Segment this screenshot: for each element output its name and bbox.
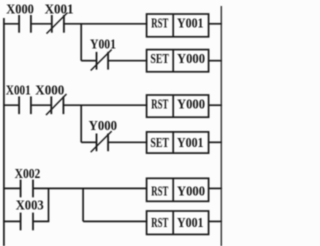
- svg-text:RST: RST: [151, 216, 168, 231]
- contact X002 NO: [21, 180, 33, 198]
- contact X001 NC: [47, 13, 68, 34]
- svg-text:RST: RST: [151, 97, 168, 112]
- wire RST box to right rail rung3: [209, 187, 222, 189]
- svg-text:Y001: Y001: [177, 136, 204, 151]
- svg-text:Y000: Y000: [177, 184, 205, 199]
- wire Y001 to SET box: [108, 60, 147, 62]
- svg-text:X001: X001: [45, 2, 74, 17]
- coil box SET Y001 rung2b: [147, 132, 209, 153]
- wire rung1 rail to X000: [3, 23, 19, 25]
- wire SET box to right rail rung2b: [209, 141, 222, 143]
- branch vertical rung2: [80, 105, 82, 142]
- svg-text:X001: X001: [6, 84, 31, 99]
- svg-text:X002: X002: [15, 167, 41, 182]
- svg-text:Y000: Y000: [177, 97, 205, 112]
- svg-text:Y000: Y000: [177, 52, 205, 67]
- wire RST box to right rail rung2: [209, 104, 222, 106]
- right power rail: [220, 6, 222, 246]
- coil box RST Y001 rung3b: [147, 211, 209, 234]
- wire X000 to RST box rung2: [63, 104, 147, 106]
- svg-text:RST: RST: [151, 17, 168, 32]
- svg-text:SET: SET: [150, 52, 169, 67]
- contact X003 NO: [21, 213, 33, 231]
- coil box RST Y000 rung2: [147, 95, 209, 117]
- svg-text:Y001: Y001: [177, 17, 204, 32]
- svg-text:Y001: Y001: [177, 216, 204, 231]
- wire X003 to join vertical: [33, 220, 49, 222]
- coil box RST Y001 rung1: [147, 14, 209, 37]
- wire rung3 rail to X002: [3, 187, 21, 189]
- svg-text:SET: SET: [150, 136, 169, 151]
- wire branch to Y001 contact: [81, 60, 96, 62]
- contact Y001 NC: [91, 50, 112, 71]
- contact X001 NO rung2: [19, 96, 31, 114]
- wire branch to RST Y001 box: [83, 220, 147, 222]
- svg-text:RST: RST: [151, 184, 168, 199]
- svg-text:Y000: Y000: [89, 119, 117, 134]
- contact X000 NO: [19, 15, 31, 33]
- wire X000 to X001: [31, 23, 52, 25]
- svg-text:X000: X000: [6, 2, 34, 17]
- svg-text:X000: X000: [35, 84, 64, 99]
- left power rail: [3, 18, 5, 246]
- wire SET box to right rail rung1b: [209, 60, 222, 62]
- wire branch to Y000 contact: [81, 141, 96, 143]
- coil box SET Y000 rung1b: [147, 50, 209, 72]
- wire X001 to X000 rung2: [31, 104, 51, 106]
- svg-text:Y001: Y001: [90, 37, 116, 52]
- parallel join vertical: [48, 188, 50, 221]
- wire RST box to right rail rung1: [209, 23, 222, 25]
- wire rail to X003: [3, 220, 21, 222]
- branch vertical rung1: [80, 24, 82, 61]
- coil box RST Y000 rung3: [147, 178, 209, 201]
- contact X000 NC rung2: [46, 94, 67, 115]
- contact Y000 NC: [91, 131, 112, 152]
- wire RST box to right rail rung3b: [209, 220, 222, 222]
- wire rung2 rail to X001: [3, 104, 19, 106]
- wire X001 to RST box rung1: [64, 23, 148, 25]
- branch vertical rung3: [82, 188, 84, 221]
- wire Y000 to SET box rung2b: [108, 141, 147, 143]
- wire X002 to RST box rung3: [33, 187, 148, 189]
- svg-text:X003: X003: [16, 199, 44, 214]
